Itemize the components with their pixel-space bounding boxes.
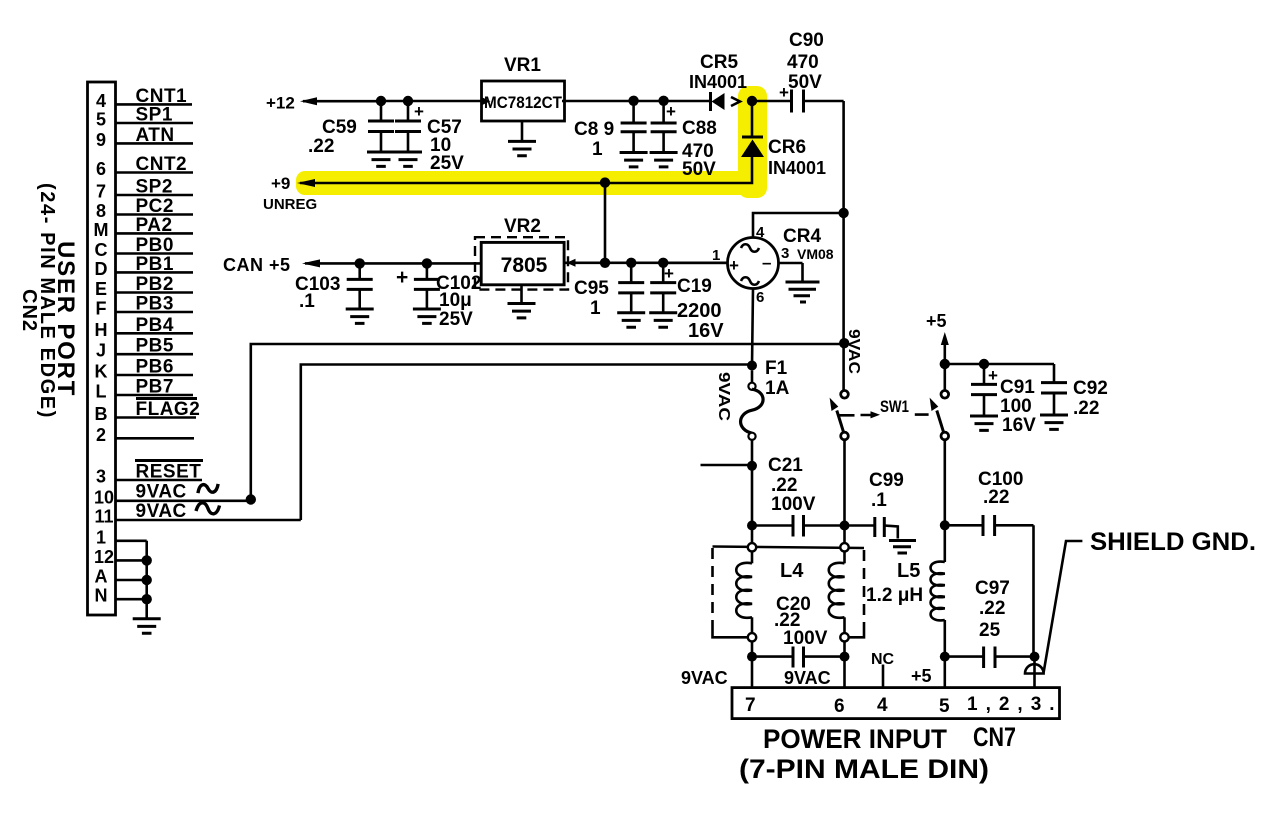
- diode CR5 1N4001: [689, 52, 747, 111]
- svg-text:1: 1: [590, 298, 601, 319]
- pin 1 (no label): [96, 527, 147, 547]
- ground below VR2: [508, 285, 536, 318]
- fuse F1 1A: [741, 358, 790, 526]
- voltage regulator VR1 MC7812CT: [482, 55, 565, 121]
- svg-text:.22: .22: [979, 598, 1005, 619]
- svg-text:UNREG: UNREG: [263, 196, 317, 213]
- svg-text:C91: C91: [1000, 377, 1035, 398]
- svg-text:3: 3: [96, 467, 106, 487]
- svg-text:7: 7: [745, 695, 756, 716]
- node CAN+5 junctions: [355, 258, 433, 268]
- capacitor C103 .1: [295, 263, 374, 323]
- svg-text:D: D: [95, 259, 108, 279]
- svg-text:C90: C90: [789, 30, 824, 51]
- svg-text:100: 100: [1000, 396, 1032, 417]
- svg-text:E: E: [95, 279, 107, 299]
- svg-text:PB2: PB2: [136, 274, 174, 295]
- svg-text:C95: C95: [574, 278, 609, 299]
- caption POWER INPUT CN7: [763, 722, 1016, 754]
- arrow into VR1 input: [481, 97, 491, 106]
- svg-text:RESET: RESET: [136, 462, 202, 483]
- svg-text:6: 6: [96, 159, 106, 179]
- switch SW1 linkage + label: [840, 397, 929, 418]
- svg-text:7805: 7805: [501, 254, 548, 277]
- svg-text:CR6: CR6: [768, 137, 806, 158]
- pin 4 CNT1: [96, 86, 192, 111]
- node +9/+12 junction (CR5/CR6/C90): [747, 96, 757, 106]
- pin N (no label): [95, 586, 147, 606]
- pin 2 (no label): [96, 425, 194, 445]
- pin J PB5: [96, 336, 193, 361]
- pin 12 (no label): [94, 547, 147, 567]
- highlight on +9 UNREG net: [296, 86, 767, 198]
- svg-text:9: 9: [96, 130, 106, 150]
- svg-text:PA2: PA2: [136, 215, 173, 236]
- pin 5 SP1: [96, 105, 193, 130]
- svg-text:+: +: [729, 256, 739, 275]
- capacitor C90 470/50V (+) series: [752, 30, 844, 113]
- capacitor C99 .1 to ground: [845, 470, 917, 553]
- svg-text:PB7: PB7: [136, 377, 174, 398]
- inductor L4 winding a: [736, 526, 756, 657]
- capacitor C97 .22/25: [940, 578, 1040, 668]
- svg-text:C59: C59: [322, 117, 357, 138]
- svg-text:9VAC: 9VAC: [136, 501, 187, 522]
- voltage regulator VR2 7805: [475, 216, 568, 290]
- svg-text:L4: L4: [780, 560, 804, 582]
- pin M PA2: [94, 215, 194, 240]
- capacitor C19 2200/16V (+): [649, 263, 724, 342]
- bridge rectifier CR4 VM08: [712, 224, 834, 306]
- svg-text:J: J: [96, 341, 106, 361]
- svg-text:.22: .22: [1073, 398, 1099, 419]
- svg-text:1A: 1A: [765, 378, 790, 399]
- pin 3 RESET: [96, 462, 202, 487]
- switch SW1 pole B: [930, 364, 949, 525]
- svg-text:50V: 50V: [682, 159, 716, 180]
- svg-text:4: 4: [756, 224, 765, 241]
- svg-text:+: +: [664, 264, 674, 283]
- svg-text:25: 25: [979, 620, 1001, 641]
- wire 9VAC pin11 to F1 node: [301, 365, 752, 521]
- pin L PB7: [96, 377, 194, 402]
- L4 shield box (dashed): [713, 547, 865, 638]
- pin 7 SP2: [96, 177, 193, 202]
- svg-text:1: 1: [96, 527, 106, 547]
- label CN2 (rotated): [18, 289, 40, 332]
- svg-text:+: +: [666, 102, 676, 121]
- svg-text:16V: 16V: [1002, 415, 1036, 436]
- svg-text:11: 11: [94, 507, 113, 527]
- svg-text:VM08: VM08: [797, 246, 834, 262]
- svg-text:K: K: [95, 362, 108, 382]
- capacitor C95 1: [574, 263, 645, 327]
- svg-text:7: 7: [96, 182, 106, 202]
- wire CN7 pin7: [751, 657, 754, 688]
- inductor L4 winding b: [829, 529, 849, 657]
- pin D PB1: [95, 254, 194, 279]
- svg-text:B: B: [95, 404, 108, 424]
- svg-text:F1: F1: [765, 358, 788, 379]
- pin A (no label): [95, 567, 147, 587]
- net +5 arrow up: [926, 311, 949, 364]
- svg-text:–: –: [762, 253, 771, 272]
- svg-text:C97: C97: [975, 578, 1010, 599]
- label +5 pin5: [911, 666, 932, 686]
- net +12 arrow: [266, 94, 381, 113]
- svg-text:C: C: [95, 240, 108, 260]
- overline on RESET: [135, 459, 203, 462]
- inductor L5 1.2uH: [866, 525, 945, 656]
- svg-text:CN7: CN7: [973, 722, 1016, 752]
- capacitor C21 .22/100V: [747, 455, 850, 537]
- svg-text:6: 6: [756, 289, 764, 306]
- pin 8 PC2: [96, 196, 193, 221]
- capacitor C102 10u/25V (+): [396, 263, 481, 330]
- pin E PB2: [95, 274, 193, 299]
- svg-text:CAN +5: CAN +5: [223, 255, 291, 275]
- svg-text:+: +: [414, 102, 424, 121]
- capacitor C91 100/16V (+): [970, 364, 1036, 436]
- connector CN7 body: [732, 688, 1063, 719]
- svg-text:IN4001: IN4001: [768, 158, 826, 178]
- svg-text:+9: +9: [271, 174, 290, 193]
- svg-text:16V: 16V: [688, 320, 724, 342]
- stub wire at F1 bottom: [701, 461, 758, 471]
- connector CN2 user port body: [88, 82, 116, 615]
- capacitor C57 10/25V (+): [394, 101, 464, 174]
- svg-text:9VAC: 9VAC: [136, 482, 187, 503]
- svg-text:C8 9: C8 9: [574, 119, 614, 140]
- svg-text:5: 5: [939, 696, 950, 717]
- svg-text:M: M: [94, 220, 109, 240]
- label 9VAC (rotated, at fuse): [715, 372, 732, 422]
- shield ground symbol + leader: [1025, 541, 1082, 688]
- svg-text:PB1: PB1: [136, 254, 174, 275]
- svg-text:6: 6: [834, 696, 845, 717]
- svg-text:.22: .22: [771, 475, 797, 496]
- svg-text:C92: C92: [1073, 378, 1108, 399]
- svg-text:PB3: PB3: [136, 294, 174, 315]
- wire VR2 input rail: [564, 258, 728, 268]
- svg-text:PB0: PB0: [136, 235, 174, 256]
- svg-text:ATN: ATN: [136, 125, 175, 146]
- ground below VR1: [508, 121, 536, 156]
- svg-text:MC7812CT: MC7812CT: [484, 93, 563, 112]
- svg-text:POWER INPUT: POWER INPUT: [763, 724, 947, 754]
- wire 9VAC pin10 to SW1 node: [246, 344, 845, 505]
- wire +5 node to C91/C92: [940, 359, 1054, 383]
- svg-text:1: 1: [592, 139, 603, 160]
- pin 6 CNT2: [96, 154, 193, 179]
- capacitor C88 470/50V (+): [650, 101, 717, 180]
- node F1 top junction: [747, 361, 757, 371]
- wire CR4 pin1: [663, 261, 727, 264]
- svg-text:100V: 100V: [771, 494, 816, 515]
- svg-text:9VAC: 9VAC: [681, 668, 728, 688]
- svg-text:10μ: 10μ: [439, 290, 472, 311]
- svg-text:25V: 25V: [430, 153, 464, 174]
- svg-text:.22: .22: [308, 136, 334, 157]
- svg-text:+5: +5: [911, 666, 932, 686]
- svg-text:PB6: PB6: [136, 357, 174, 378]
- svg-text:H: H: [95, 320, 108, 340]
- svg-text:1.2 μH: 1.2 μH: [866, 585, 923, 606]
- pin B FLAG2: [95, 399, 201, 424]
- label 9VAC (rotated, right): [845, 329, 862, 374]
- svg-text:N: N: [95, 586, 108, 606]
- wire +12 rail to VR1: [376, 96, 482, 106]
- wire C90 down to CR4 pin4 / SW1: [838, 101, 849, 391]
- svg-text:C19: C19: [677, 276, 712, 297]
- pin 9 ATN: [96, 125, 193, 150]
- pin H PB4: [95, 315, 194, 340]
- pin F PB3: [96, 294, 194, 319]
- svg-text:2200: 2200: [677, 300, 722, 322]
- svg-text:PC2: PC2: [136, 196, 174, 217]
- svg-text:C99: C99: [869, 470, 904, 491]
- svg-text:CR5: CR5: [700, 52, 738, 73]
- svg-text:SHIELD GND.: SHIELD GND.: [1090, 528, 1256, 556]
- svg-text:100V: 100V: [783, 628, 828, 649]
- wire CR4 pin4 up-right: [753, 213, 844, 238]
- svg-text:SP1: SP1: [136, 105, 173, 126]
- capacitor C59 .22: [308, 101, 395, 166]
- net +9 UNREG arrow: [263, 174, 752, 213]
- svg-text:1,2,3.: 1,2,3.: [967, 694, 1063, 715]
- svg-text:1: 1: [712, 247, 720, 264]
- svg-text:9VAC: 9VAC: [845, 329, 862, 374]
- svg-text:NC: NC: [871, 651, 895, 668]
- svg-text:CNT2: CNT2: [136, 154, 188, 175]
- svg-text:SW1: SW1: [880, 397, 909, 416]
- stub CN7 pin4 NC: [882, 665, 885, 688]
- label 9VAC pin7: [681, 668, 728, 688]
- svg-text:4: 4: [96, 91, 106, 111]
- svg-text:.1: .1: [871, 490, 887, 511]
- svg-text:9VAC: 9VAC: [784, 668, 831, 688]
- svg-text:+: +: [988, 366, 998, 385]
- wire CN7 pin6: [843, 657, 846, 688]
- pin K PB6: [95, 357, 194, 382]
- svg-text:12: 12: [94, 547, 114, 567]
- label (24-PIN MALE EDGE) (rotated): [36, 183, 58, 419]
- svg-text:2: 2: [96, 425, 106, 445]
- capacitor C92 .22: [1040, 378, 1108, 429]
- overline on FLAG2: [136, 397, 197, 400]
- svg-text:C21: C21: [768, 455, 803, 476]
- wire CR4 pin6 down to F1 node: [752, 289, 753, 366]
- wire +9 tap down to VR2 input: [604, 183, 607, 263]
- svg-text:470: 470: [787, 52, 819, 73]
- svg-text:3: 3: [781, 245, 789, 262]
- svg-text:8: 8: [96, 201, 106, 221]
- net label 9VAC pin10 with half-wave squiggle: [136, 482, 219, 503]
- wire VR1 out rail: [562, 96, 710, 106]
- diode CR6 1N4001: [741, 101, 826, 182]
- svg-text:VR1: VR1: [504, 55, 541, 76]
- svg-text:+12: +12: [266, 94, 295, 113]
- label 9VAC pin6: [784, 668, 831, 688]
- svg-text:L: L: [96, 382, 107, 402]
- svg-text:.1: .1: [299, 291, 315, 312]
- svg-text:PB4: PB4: [136, 315, 174, 336]
- svg-text:+5: +5: [926, 311, 947, 331]
- svg-text:9VAC: 9VAC: [715, 372, 732, 422]
- svg-text:FLAG2: FLAG2: [136, 399, 201, 420]
- capacitor C89 1: [574, 101, 648, 167]
- svg-text:5: 5: [96, 110, 106, 130]
- pin 11 9VAC: [94, 507, 300, 527]
- svg-text:IN4001: IN4001: [689, 72, 747, 92]
- svg-text:4: 4: [877, 695, 888, 716]
- svg-text:25V: 25V: [439, 309, 473, 330]
- label NC pin4: [871, 651, 895, 668]
- svg-text:A: A: [95, 567, 108, 587]
- arrow into VR2 input: [567, 259, 576, 267]
- pin C PB0: [95, 235, 194, 260]
- pin 10 9VAC: [94, 487, 251, 507]
- caption (7-PIN MALE DIN): [739, 754, 989, 784]
- capacitor C100 .22: [940, 469, 1034, 657]
- svg-text:SP2: SP2: [136, 177, 173, 198]
- wire CR4 pin3 + ground: [779, 263, 820, 302]
- wire pin 1/12/A/N common: [142, 541, 152, 619]
- net CAN +5 arrow: [223, 255, 482, 275]
- ground below connector: [133, 619, 161, 633]
- svg-text:F: F: [96, 299, 107, 319]
- svg-text:.22: .22: [983, 487, 1009, 508]
- switch SW1 pole A: [830, 391, 849, 526]
- wire CN7 pin5: [943, 657, 946, 688]
- svg-text:PB5: PB5: [136, 336, 174, 357]
- label SHIELD GND.: [1090, 528, 1256, 556]
- label L4: [780, 560, 804, 582]
- svg-text:CR4: CR4: [783, 226, 821, 247]
- svg-text:10: 10: [94, 487, 114, 507]
- svg-text:50V: 50V: [788, 72, 822, 93]
- net label 9VAC pin11 with sine symbol: [136, 501, 220, 522]
- svg-text:+: +: [396, 266, 408, 289]
- svg-text:CN2: CN2: [18, 289, 40, 332]
- svg-text:L5: L5: [897, 560, 920, 582]
- svg-text:(7-PIN MALE DIN): (7-PIN MALE DIN): [739, 754, 989, 784]
- svg-text:VR2: VR2: [504, 216, 541, 237]
- capacitor C20 .22/100V: [747, 594, 850, 668]
- svg-text:C88: C88: [682, 118, 717, 139]
- label USER PORT (rotated): [52, 241, 79, 397]
